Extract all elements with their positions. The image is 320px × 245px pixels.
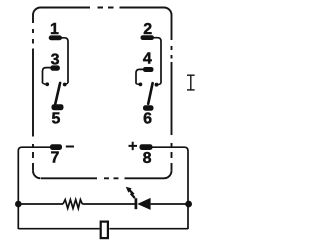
pin 3 terminal xyxy=(50,65,60,70)
pin 6 terminal xyxy=(143,105,154,110)
minus polarity mark xyxy=(66,146,74,148)
left stationary contact (left group) xyxy=(43,83,46,84)
right stationary contact (left group) xyxy=(66,83,68,84)
LED triangle xyxy=(137,198,150,210)
coil (rectangle) xyxy=(101,222,108,239)
right stationary contact (right group) xyxy=(158,84,161,85)
wire pin2 to right contact xyxy=(153,38,161,84)
pin 4 terminal xyxy=(143,67,154,72)
pin 1 terminal xyxy=(49,35,62,40)
wire pin1 to right contact xyxy=(61,38,68,83)
svg-text:6: 6 xyxy=(143,111,152,128)
left stationary contact (right group) xyxy=(136,83,139,86)
junction node right xyxy=(185,201,192,208)
relay case outline (dash-dot rounded rectangle) xyxy=(33,8,172,179)
junction node left xyxy=(15,201,22,208)
svg-text:5: 5 xyxy=(52,111,61,128)
wire pin8 to coil circuit xyxy=(152,147,188,229)
wire upper branch left xyxy=(18,203,63,205)
svg-text:4: 4 xyxy=(143,51,152,68)
movable contact lever (left pole) xyxy=(55,83,60,104)
resistor R (zigzag) xyxy=(63,200,82,209)
pin 7 terminal xyxy=(50,144,62,150)
wire bottom right xyxy=(109,228,188,230)
movable contact lever (right pole) xyxy=(148,83,152,104)
pin 5 terminal xyxy=(52,104,64,110)
wire LED to right xyxy=(151,203,188,205)
wire pin7 to coil circuit xyxy=(18,147,51,229)
svg-text:8: 8 xyxy=(143,150,152,167)
LED cathode bar xyxy=(135,198,138,209)
wire pin3 to left contact xyxy=(43,68,51,84)
I-beam text cursor xyxy=(187,75,195,90)
wire resistor to LED xyxy=(82,203,135,205)
plus polarity mark xyxy=(129,142,138,150)
pin 8 terminal xyxy=(140,144,153,150)
wire pin4 to left contact xyxy=(136,69,144,83)
wire bottom left xyxy=(18,228,99,230)
LED emission arrow xyxy=(130,190,135,198)
pin 2 terminal xyxy=(141,35,155,40)
svg-text:7: 7 xyxy=(51,150,60,167)
